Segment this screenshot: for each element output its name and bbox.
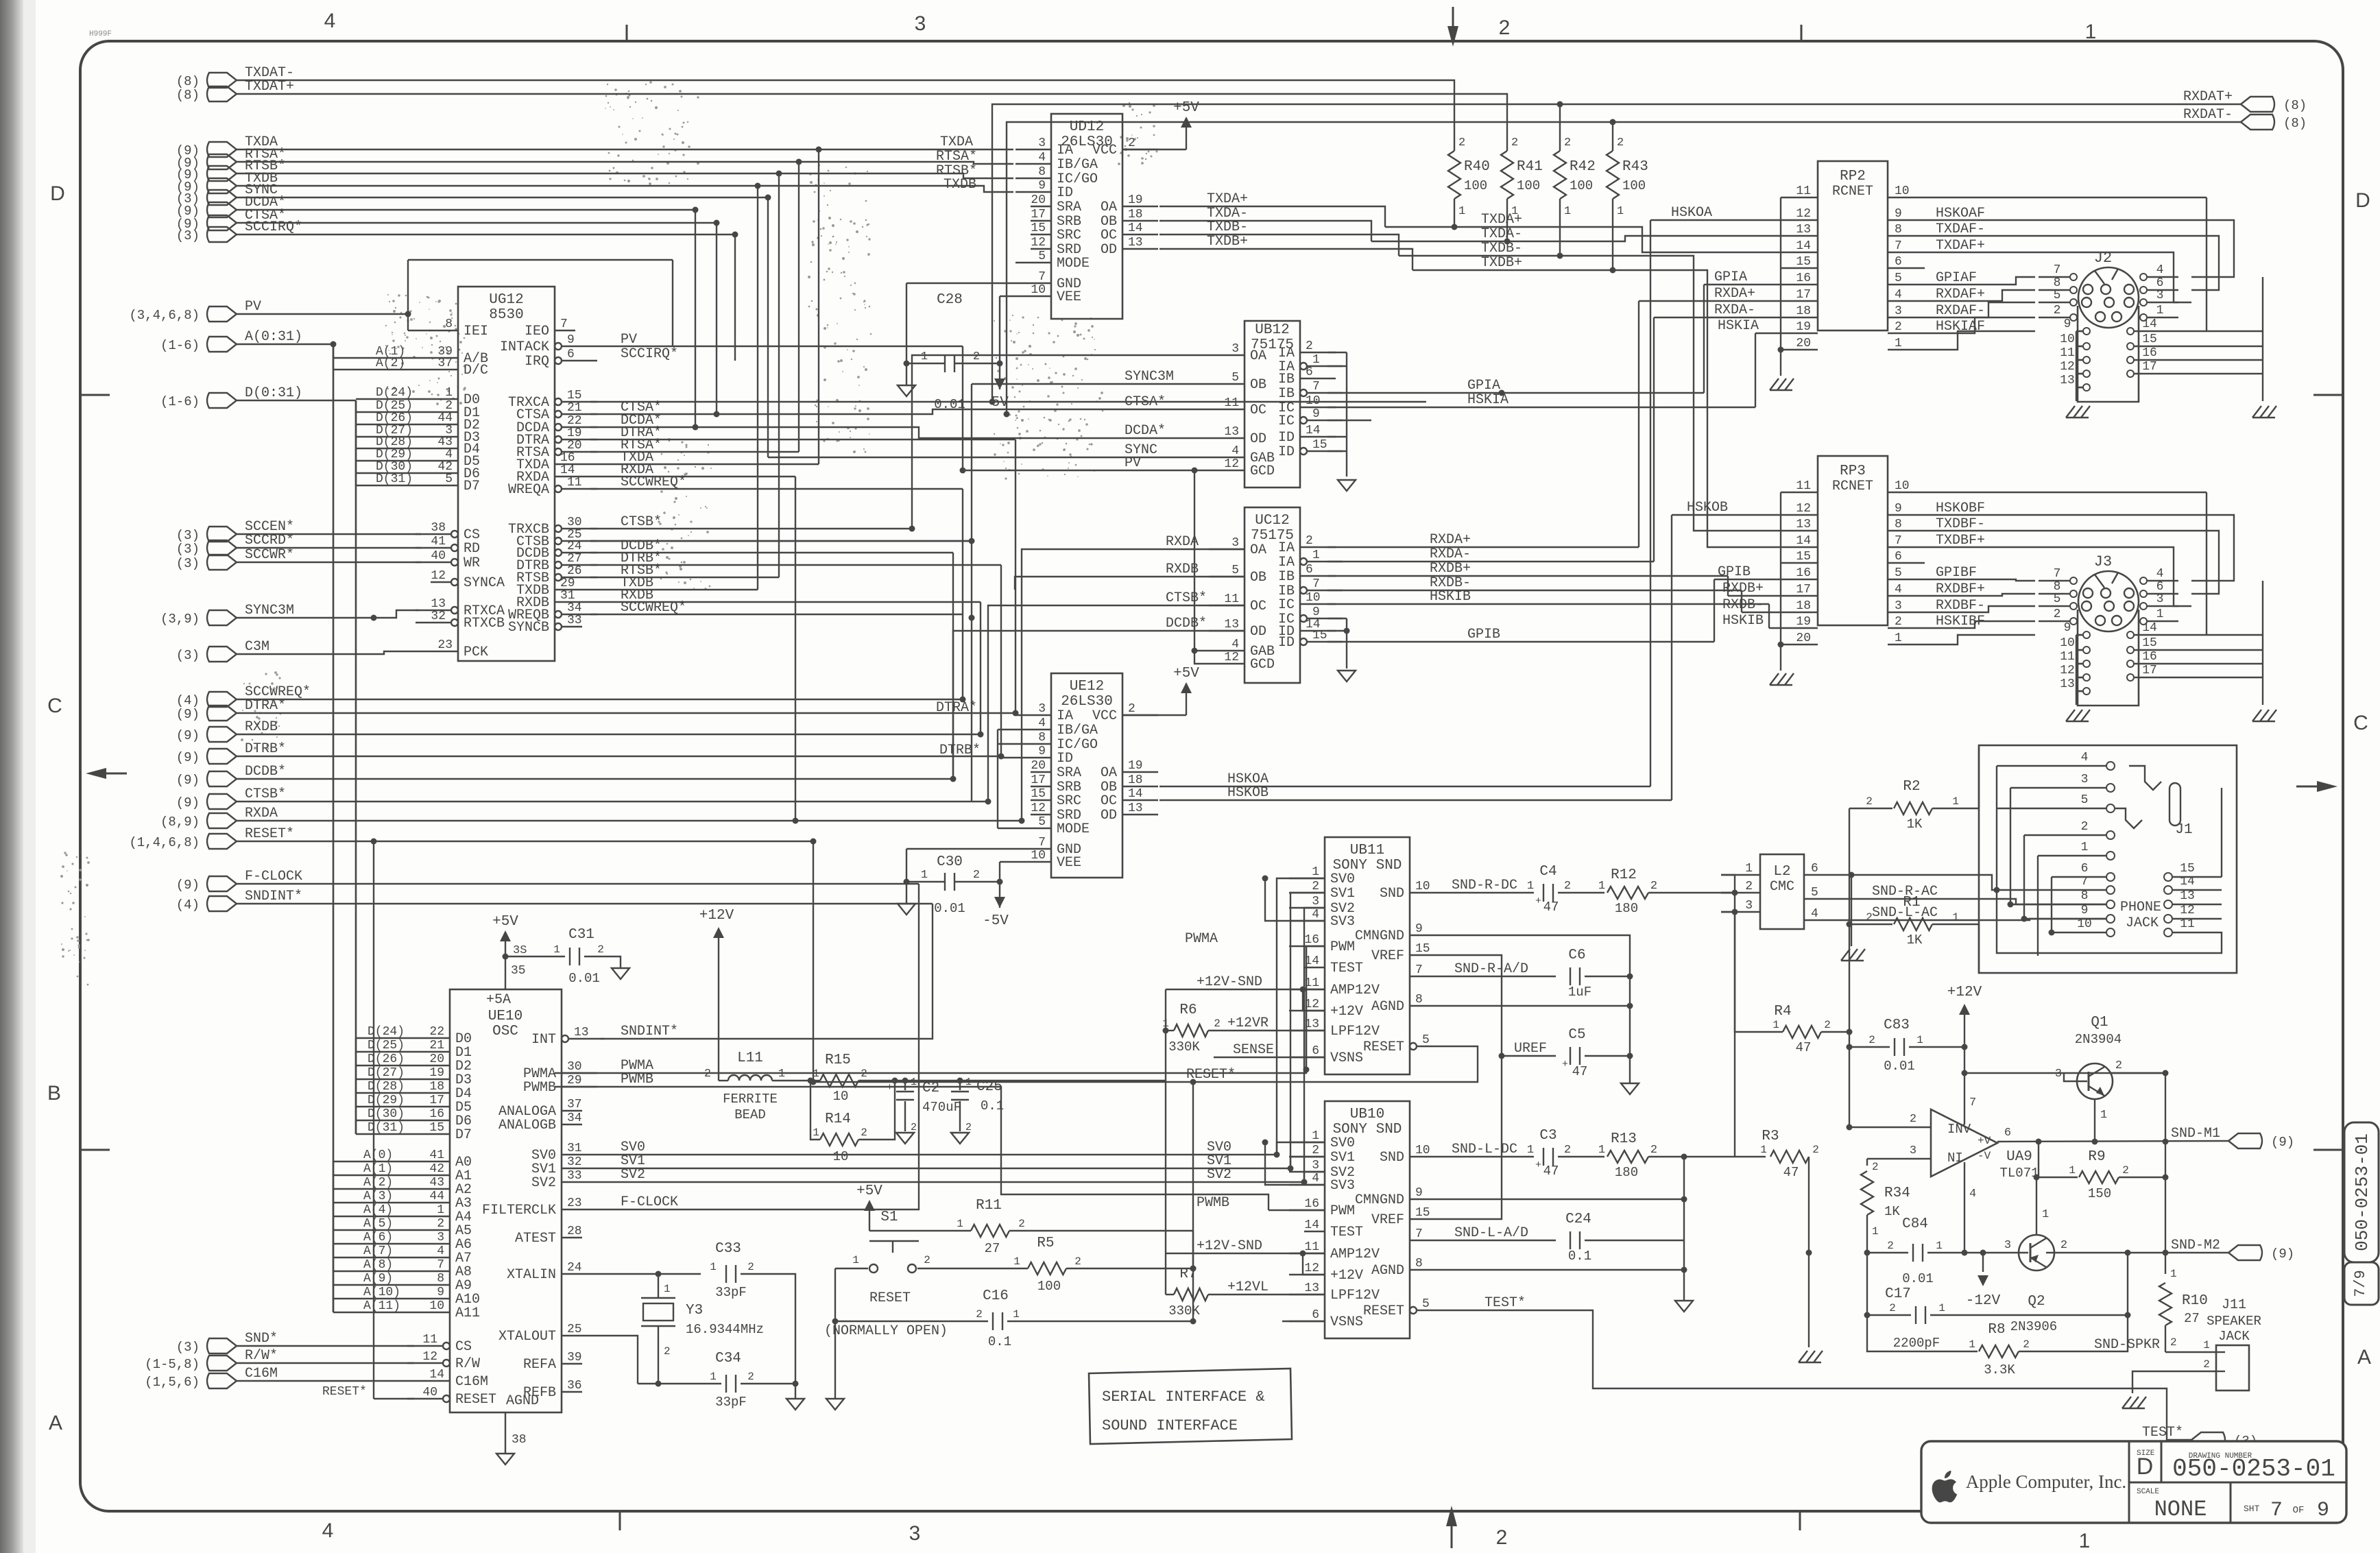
resistor R8 xyxy=(1867,1315,1978,1351)
svg-text:SND-L-DC: SND-L-DC xyxy=(1452,1142,1517,1157)
svg-text:1: 1 xyxy=(965,1076,972,1088)
wire xyxy=(237,883,919,884)
svg-text:17: 17 xyxy=(2142,664,2157,677)
wire xyxy=(673,346,963,347)
wire xyxy=(597,893,1325,1168)
input flag DTRB* xyxy=(207,749,237,764)
op-amp UA9 TL071 xyxy=(1931,1109,1997,1177)
svg-text:2: 2 xyxy=(1306,534,1313,548)
svg-text:SND: SND xyxy=(1380,886,1404,902)
ground at C30 xyxy=(906,882,907,904)
svg-text:13: 13 xyxy=(431,597,446,611)
svg-text:3: 3 xyxy=(1312,1159,1319,1172)
input flag SYNC xyxy=(207,190,237,205)
input flag SCCEN* xyxy=(207,527,237,542)
wire RXDB- xyxy=(1327,590,1742,591)
svg-text:2: 2 xyxy=(2081,820,2089,834)
svg-text:RESET: RESET xyxy=(1363,1303,1404,1319)
svg-text:3: 3 xyxy=(1231,342,1239,356)
wire TXDA+ xyxy=(1385,227,1781,252)
wire xyxy=(590,426,695,428)
svg-text:(1,4,6,8): (1,4,6,8) xyxy=(129,835,200,850)
svg-text:14: 14 xyxy=(1128,787,1143,801)
svg-text:13: 13 xyxy=(1796,518,1811,531)
svg-text:SRC: SRC xyxy=(1057,228,1081,243)
svg-text:TEST: TEST xyxy=(1330,1225,1363,1240)
svg-text:F-CLOCK: F-CLOCK xyxy=(621,1194,678,1210)
resistor R3 xyxy=(1735,1156,1766,1157)
svg-text:20: 20 xyxy=(1796,631,1811,645)
svg-text:SCCWR*: SCCWR* xyxy=(245,547,294,563)
svg-text:2: 2 xyxy=(1889,1302,1896,1314)
svg-text:AMP12V: AMP12V xyxy=(1330,983,1380,998)
svg-text:D7: D7 xyxy=(464,479,480,494)
ground at UC12 xyxy=(1338,671,1356,682)
svg-text:AGND: AGND xyxy=(506,1393,539,1409)
svg-text:C4: C4 xyxy=(1539,864,1556,880)
svg-text:6: 6 xyxy=(1312,1308,1319,1322)
input flag DCDB* xyxy=(207,771,237,786)
svg-text:050-0253-01: 050-0253-01 xyxy=(2172,1455,2335,1483)
svg-text:11: 11 xyxy=(1304,1240,1319,1254)
wire RXDA- run xyxy=(1654,317,1781,318)
ground at UB12 xyxy=(1338,480,1356,491)
wire xyxy=(237,186,1013,192)
svg-text:WREQA: WREQA xyxy=(508,482,549,498)
svg-text:(9): (9) xyxy=(2271,1247,2294,1262)
svg-text:2: 2 xyxy=(1745,880,1753,893)
svg-text:470uF: 470uF xyxy=(922,1100,961,1115)
svg-text:10: 10 xyxy=(1415,1144,1430,1157)
svg-text:SV0: SV0 xyxy=(1330,871,1355,887)
wire xyxy=(795,477,796,821)
wire TXDAT+ run xyxy=(237,94,1507,151)
input flag TXDAT+ xyxy=(207,86,237,101)
svg-text:10: 10 xyxy=(429,1299,444,1313)
svg-text:(1-6): (1-6) xyxy=(160,394,200,409)
svg-text:18: 18 xyxy=(1128,773,1143,787)
svg-text:RESET*: RESET* xyxy=(322,1385,367,1399)
svg-text:37: 37 xyxy=(567,1098,582,1111)
svg-text:A(3): A(3) xyxy=(363,1190,393,1203)
-12V xyxy=(1982,1253,1984,1272)
svg-text:IB: IB xyxy=(1278,569,1295,585)
svg-text:(9): (9) xyxy=(176,750,200,765)
svg-text:RXDAT-: RXDAT- xyxy=(2183,107,2233,123)
svg-text:13: 13 xyxy=(2180,889,2195,903)
svg-text:12: 12 xyxy=(1304,1262,1319,1275)
svg-text:15: 15 xyxy=(567,389,582,402)
svg-text:TXDB-: TXDB- xyxy=(1207,219,1248,235)
svg-text:(8): (8) xyxy=(2283,116,2307,131)
svg-text:+12VR: +12VR xyxy=(1227,1015,1269,1031)
svg-text:RXDAF-: RXDAF- xyxy=(1936,303,1985,319)
capacitor C2 470uF xyxy=(904,1081,906,1090)
svg-text:SND-M1: SND-M1 xyxy=(2171,1126,2220,1142)
svg-text:26: 26 xyxy=(567,564,582,578)
wire xyxy=(818,149,819,464)
svg-text:1: 1 xyxy=(921,869,928,882)
svg-text:11: 11 xyxy=(422,1333,437,1347)
wire xyxy=(590,439,1015,440)
svg-text:1: 1 xyxy=(553,943,560,956)
wire SND-R-AC xyxy=(1843,899,2106,904)
svg-text:2: 2 xyxy=(437,1217,444,1231)
svg-text:15: 15 xyxy=(1415,1206,1430,1220)
svg-text:5: 5 xyxy=(1895,272,1902,285)
wire xyxy=(962,346,963,470)
svg-text:RXDB: RXDB xyxy=(245,719,278,735)
resistor R34 xyxy=(1866,1159,1868,1166)
svg-text:47: 47 xyxy=(1572,1064,1588,1079)
svg-text:+5V: +5V xyxy=(856,1183,882,1199)
input flag SCCWREQ* xyxy=(207,692,237,707)
svg-text:3: 3 xyxy=(2156,289,2164,302)
svg-text:DTRB*: DTRB* xyxy=(245,741,286,757)
svg-text:4: 4 xyxy=(322,1519,334,1542)
svg-text:7: 7 xyxy=(1895,534,1902,548)
svg-text:0.01: 0.01 xyxy=(1902,1271,1934,1286)
input flag TXDA xyxy=(207,142,237,157)
J3 pin stubs xyxy=(2039,580,2071,581)
svg-text:3: 3 xyxy=(437,1231,444,1244)
svg-text:32: 32 xyxy=(431,610,446,623)
svg-text:R34: R34 xyxy=(1884,1185,1910,1201)
wire PWMB to UB10 xyxy=(1269,1209,1325,1211)
svg-text:GCD: GCD xyxy=(1250,657,1275,673)
svg-text:7: 7 xyxy=(1312,577,1320,591)
svg-text:OC: OC xyxy=(1250,599,1266,614)
svg-text:100: 100 xyxy=(1517,178,1540,193)
wire from R12 to L2 xyxy=(1721,875,1735,893)
svg-text:GCD: GCD xyxy=(1250,464,1275,479)
svg-text:1: 1 xyxy=(1952,911,1959,924)
svg-text:0.01: 0.01 xyxy=(568,971,600,986)
wire xyxy=(590,401,1426,402)
svg-text:F-CLOCK: F-CLOCK xyxy=(245,869,302,884)
D bus stubs UG12 xyxy=(355,400,357,485)
svg-text:RP2: RP2 xyxy=(1840,169,1866,184)
wire HSKIA xyxy=(1327,407,1755,408)
svg-text:HSKIAF: HSKIAF xyxy=(1936,319,1985,335)
svg-text:5: 5 xyxy=(1895,566,1902,580)
wire Q2 pins xyxy=(1964,1252,2028,1253)
wire RXDAT+ run xyxy=(992,104,2241,402)
wire xyxy=(767,197,769,457)
wire xyxy=(1015,713,1016,715)
wire xyxy=(237,1362,414,1364)
svg-text:R6: R6 xyxy=(1179,1002,1197,1018)
svg-text:2: 2 xyxy=(1866,911,1873,924)
svg-text:CTSB*: CTSB* xyxy=(1166,590,1207,606)
svg-text:ANALOGB: ANALOGB xyxy=(498,1118,556,1133)
svg-text:TXDAT+: TXDAT+ xyxy=(245,79,294,95)
D bus stubs UE10 xyxy=(355,1038,357,1134)
wire xyxy=(597,908,1325,1182)
capacitor C28 xyxy=(906,282,1015,284)
svg-text:+5V: +5V xyxy=(492,914,518,930)
resistor pack RP3 xyxy=(1818,456,1888,625)
wire xyxy=(237,547,421,549)
wire xyxy=(237,197,768,198)
svg-text:4: 4 xyxy=(324,10,336,32)
Apple logo xyxy=(1932,1471,1958,1502)
svg-text:+5V: +5V xyxy=(1173,666,1199,682)
svg-text:1: 1 xyxy=(1312,353,1320,367)
svg-text:14: 14 xyxy=(2142,317,2157,331)
svg-text:19: 19 xyxy=(1128,759,1143,773)
resistor R6 xyxy=(1166,1030,1174,1031)
svg-text:IRQ: IRQ xyxy=(525,354,549,370)
svg-text:24: 24 xyxy=(567,540,582,553)
svg-text:+12V: +12V xyxy=(699,908,734,924)
svg-text:(3): (3) xyxy=(176,542,200,557)
svg-text:C: C xyxy=(2353,712,2368,734)
svg-text:8: 8 xyxy=(2081,889,2089,903)
svg-text:CMNGND: CMNGND xyxy=(1355,1192,1404,1208)
svg-text:C25: C25 xyxy=(976,1079,1002,1095)
svg-text:-5V: -5V xyxy=(983,395,1009,411)
svg-text:A: A xyxy=(49,1412,62,1434)
svg-text:2: 2 xyxy=(747,1371,754,1383)
wire TXDB+ xyxy=(1413,270,1781,547)
wire HSKOA xyxy=(1159,786,1650,787)
svg-text:33: 33 xyxy=(567,614,582,627)
svg-text:1: 1 xyxy=(957,1218,963,1230)
wire RESET* down from flag xyxy=(813,841,814,1082)
svg-text:11: 11 xyxy=(567,476,582,490)
svg-text:XTALIN: XTALIN xyxy=(507,1267,556,1283)
svg-text:1: 1 xyxy=(2079,1530,2091,1552)
svg-text:3: 3 xyxy=(2055,1068,2062,1081)
svg-text:IC: IC xyxy=(1278,597,1295,613)
svg-text:A: A xyxy=(2357,1346,2371,1369)
svg-text:13: 13 xyxy=(574,1026,589,1039)
RP3 pin 11/20 tie xyxy=(1780,492,1781,671)
svg-text:2: 2 xyxy=(1312,880,1319,893)
svg-text:+: + xyxy=(887,1082,893,1094)
svg-text:13: 13 xyxy=(1224,618,1239,631)
svg-text:1: 1 xyxy=(1312,865,1319,879)
svg-text:H999F: H999F xyxy=(89,30,112,38)
svg-text:17: 17 xyxy=(1796,288,1811,302)
svg-text:(1,5,6): (1,5,6) xyxy=(145,1375,200,1390)
wire xyxy=(597,346,673,347)
svg-text:HSKOB: HSKOB xyxy=(1227,785,1269,801)
svg-text:9: 9 xyxy=(2317,1499,2329,1522)
wire GPIB run xyxy=(1714,579,1781,580)
svg-text:6: 6 xyxy=(1306,563,1313,577)
svg-text:R9: R9 xyxy=(2088,1149,2105,1165)
svg-text:8: 8 xyxy=(1415,993,1423,1007)
svg-text:PWM: PWM xyxy=(1330,939,1355,955)
svg-text:19: 19 xyxy=(567,426,582,440)
svg-text:5: 5 xyxy=(2054,592,2061,606)
wire xyxy=(237,820,1022,821)
svg-text:4: 4 xyxy=(1231,638,1239,651)
svg-text:5: 5 xyxy=(1038,250,1046,263)
wire SND-SPKR xyxy=(2165,1351,2216,1353)
svg-text:34: 34 xyxy=(567,1111,582,1125)
svg-text:1: 1 xyxy=(1598,880,1605,893)
svg-text:2: 2 xyxy=(1074,1255,1081,1268)
svg-text:12: 12 xyxy=(431,569,446,583)
svg-text:SND-SPKR: SND-SPKR xyxy=(2094,1337,2160,1353)
svg-text:(9): (9) xyxy=(176,878,200,893)
input flag RXDA xyxy=(207,813,237,828)
wire xyxy=(237,712,1015,714)
wire XTALOUT xyxy=(597,1336,638,1384)
svg-text:C17: C17 xyxy=(1885,1286,1911,1302)
svg-text:17: 17 xyxy=(1796,583,1811,597)
svg-text:VSNS: VSNS xyxy=(1330,1050,1363,1066)
svg-text:5: 5 xyxy=(2081,793,2089,807)
svg-text:A(0:31): A(0:31) xyxy=(245,329,302,345)
svg-text:33: 33 xyxy=(567,1169,582,1183)
svg-text:330K: 330K xyxy=(1168,1039,1200,1055)
svg-text:2: 2 xyxy=(1511,136,1518,149)
input flag SYNC3M xyxy=(207,610,237,625)
wire XTALIN xyxy=(597,1273,701,1275)
A bus stubs UE10 xyxy=(333,1161,334,1312)
wire xyxy=(962,489,963,699)
svg-text:20: 20 xyxy=(567,439,582,453)
svg-text:HSKIB: HSKIB xyxy=(1722,613,1764,629)
svg-text:Q2: Q2 xyxy=(2028,1294,2045,1310)
svg-text:10: 10 xyxy=(1895,184,1910,198)
svg-text:ID: ID xyxy=(1057,185,1073,201)
svg-text:C16: C16 xyxy=(983,1288,1009,1304)
svg-text:OD: OD xyxy=(1101,242,1117,258)
svg-text:UG12: UG12 xyxy=(489,292,523,308)
wire xyxy=(1290,1157,1325,1168)
svg-text:1: 1 xyxy=(1013,1255,1020,1268)
svg-text:2: 2 xyxy=(597,943,604,956)
svg-text:(9): (9) xyxy=(176,728,200,743)
svg-text:RD: RD xyxy=(464,541,480,557)
svg-text:2: 2 xyxy=(1458,136,1465,149)
svg-text:CS: CS xyxy=(455,1339,472,1355)
svg-text:8: 8 xyxy=(1895,518,1902,531)
svg-text:2: 2 xyxy=(1128,702,1135,716)
wire xyxy=(590,488,963,490)
svg-text:A(1): A(1) xyxy=(363,1162,393,1176)
wire xyxy=(237,903,933,904)
svg-text:SV3: SV3 xyxy=(1330,914,1355,930)
svg-text:10: 10 xyxy=(1031,283,1046,297)
svg-text:TEST*: TEST* xyxy=(1485,1295,1526,1311)
svg-text:UB12: UB12 xyxy=(1255,322,1289,338)
input flag C16M xyxy=(207,1373,237,1388)
svg-text:1: 1 xyxy=(1564,205,1571,218)
svg-text:8: 8 xyxy=(1038,731,1046,745)
wire UREF/C5 xyxy=(1502,1055,1556,1057)
svg-text:A(8): A(8) xyxy=(363,1258,393,1272)
wire xyxy=(237,222,717,224)
svg-text:17: 17 xyxy=(429,1094,444,1107)
svg-text:9: 9 xyxy=(1038,745,1046,758)
svg-text:1: 1 xyxy=(2085,21,2097,43)
wire RESET to UB11 xyxy=(813,1046,1478,1082)
svg-text:38: 38 xyxy=(431,521,446,535)
wire Q1 emitter to output rail xyxy=(2165,1073,2166,1253)
svg-text:J3: J3 xyxy=(2094,553,2112,570)
svg-text:2: 2 xyxy=(747,1261,754,1273)
svg-text:3: 3 xyxy=(1038,702,1046,716)
svg-text:2: 2 xyxy=(1128,136,1135,150)
svg-text:B: B xyxy=(47,1082,61,1105)
svg-text:+12V-SND: +12V-SND xyxy=(1197,1238,1262,1254)
svg-text:43: 43 xyxy=(437,435,453,449)
resistor R1 xyxy=(1849,924,1892,925)
svg-text:AGND: AGND xyxy=(1371,999,1404,1015)
svg-text:2: 2 xyxy=(1499,16,1511,39)
svg-text:19: 19 xyxy=(429,1066,444,1080)
wire op-amp output pin6 xyxy=(1997,1141,2228,1142)
svg-text:(3,9): (3,9) xyxy=(160,612,200,627)
svg-text:PWMB: PWMB xyxy=(621,1072,653,1087)
svg-text:R11: R11 xyxy=(976,1198,1002,1214)
A bus stubs UG12 xyxy=(333,344,334,370)
ground at S1 xyxy=(826,1399,844,1410)
svg-text:+12V-SND: +12V-SND xyxy=(1197,974,1262,990)
svg-text:2: 2 xyxy=(2170,1336,2177,1349)
-5V at C30 xyxy=(999,882,1000,908)
svg-text:2: 2 xyxy=(664,1345,671,1358)
svg-text:SNDINT*: SNDINT* xyxy=(621,1024,678,1039)
svg-text:20: 20 xyxy=(429,1052,444,1066)
svg-text:27: 27 xyxy=(985,1241,1000,1256)
svg-text:SHT: SHT xyxy=(2244,1504,2260,1514)
wire J11 pin2 to ground xyxy=(2132,1371,2216,1393)
wire xyxy=(1650,220,1651,786)
svg-text:SNDINT*: SNDINT* xyxy=(245,889,302,904)
svg-text:UC12: UC12 xyxy=(1255,513,1289,529)
svg-text:1: 1 xyxy=(2170,1268,2177,1280)
svg-text:DCDB*: DCDB* xyxy=(1166,616,1207,631)
wire xyxy=(237,756,1001,757)
svg-text:D(31): D(31) xyxy=(376,472,413,486)
wire UD12 OA out xyxy=(1159,206,1385,227)
capacitor C4 xyxy=(1543,884,1544,902)
svg-text:UA9: UA9 xyxy=(2006,1149,2032,1165)
capacitor C83 xyxy=(1849,1046,1890,1048)
svg-text:OB: OB xyxy=(1250,377,1266,393)
svg-text:DCDA*: DCDA* xyxy=(1125,423,1166,439)
svg-text:5: 5 xyxy=(1422,1033,1430,1047)
svg-text:2: 2 xyxy=(1895,320,1902,334)
wire TEST* from UB10 RESET xyxy=(1452,1310,2191,1440)
wire xyxy=(672,260,673,346)
svg-text:1: 1 xyxy=(778,1068,785,1081)
wire xyxy=(1304,1172,1325,1182)
ground at C25 xyxy=(951,1133,969,1144)
-5V at C28 xyxy=(999,363,1000,389)
svg-text:30: 30 xyxy=(567,1060,582,1074)
svg-text:330K: 330K xyxy=(1168,1303,1200,1319)
svg-text:6: 6 xyxy=(1306,365,1313,379)
svg-text:IB/GA: IB/GA xyxy=(1057,723,1098,738)
svg-text:RXDA: RXDA xyxy=(245,806,278,821)
svg-text:-V: -V xyxy=(1978,1150,1991,1162)
side tab drawing number xyxy=(2344,1122,2379,1262)
svg-text:TXDB+: TXDB+ xyxy=(1207,234,1248,250)
input flag TXDAT- xyxy=(207,73,237,88)
svg-text:(3): (3) xyxy=(176,648,200,663)
svg-text:15: 15 xyxy=(2142,333,2157,346)
resistor R13 xyxy=(1607,1151,1648,1163)
svg-text:8: 8 xyxy=(2054,580,2061,594)
